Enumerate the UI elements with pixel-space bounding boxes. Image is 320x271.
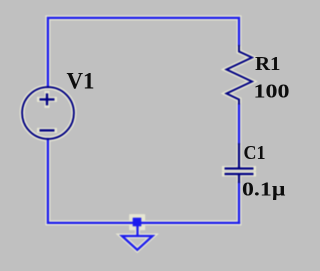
capacitor C1 (plates and leads): [225, 143, 254, 183]
svg-text:C1: C1: [244, 142, 266, 164]
wire: left-bottom vertical + bottom rail: [48, 139, 239, 223]
halo under-layer (decorative): [22, 18, 253, 250]
wire: ground stub: [136, 222, 138, 236]
svg-text:100: 100: [254, 81, 290, 103]
wire: between R1 and C1: [238, 105, 240, 144]
svg-text:0.1µ: 0.1µ: [242, 179, 286, 201]
ground symbol: [122, 236, 153, 250]
wire: below C1 to bottom rail: [238, 183, 240, 223]
svg-text:R1: R1: [255, 53, 281, 75]
resistor R1 (zigzag body): [227, 45, 253, 105]
wire: left vertical + top rail + right drop to R1: [48, 18, 239, 87]
V1 minus sign: [40, 129, 55, 131]
svg-text:V1: V1: [67, 69, 95, 94]
junction node (bottom rail to ground): [133, 218, 142, 227]
voltage source V1 (circle body): [22, 87, 74, 139]
V1 plus sign: [40, 93, 55, 105]
